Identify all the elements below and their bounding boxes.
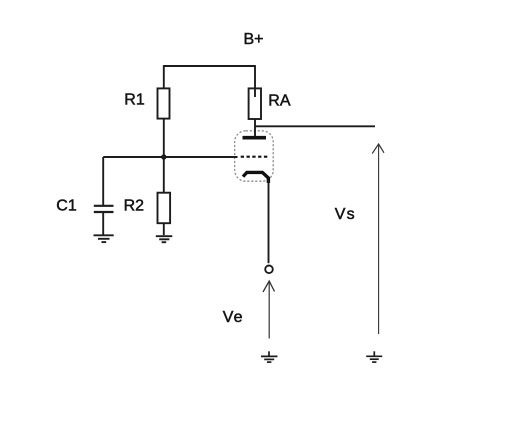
resistor R2 [158, 193, 171, 224]
svg-text:R2: R2 [124, 198, 145, 215]
resistor RA [249, 88, 261, 119]
wire: B+ top rail [164, 65, 255, 67]
svg-text:Ve: Ve [223, 309, 243, 326]
cathode of U1 [243, 172, 268, 183]
ground (below C1) [94, 235, 114, 242]
wire: C1 bottom lead [102, 213, 104, 235]
wire: RA top lead [254, 65, 256, 97]
wire: C1 top lead [102, 157, 104, 205]
ground (below R2) [156, 236, 173, 242]
svg-text:B+: B+ [244, 31, 264, 48]
node A (junction dot) [161, 154, 166, 159]
svg-text:Vs: Vs [335, 206, 355, 223]
tube envelope U1 [235, 131, 274, 181]
plate (anode) of U1 [243, 136, 267, 140]
svg-text:R1: R1 [124, 92, 145, 109]
arrow Ve (shaft) [268, 281, 270, 338]
wire: RA lead tick inside body [254, 89, 256, 97]
wire: R1 bottom lead to node [163, 119, 165, 157]
wire: R2 top lead [163, 157, 165, 194]
arrow Ve (head) [263, 281, 275, 292]
ground (below Ve arrow) [261, 351, 278, 362]
resistor R1 [158, 88, 170, 118]
ground (below Vs arrow) [366, 351, 382, 362]
svg-text:RA: RA [268, 93, 291, 110]
capacitor C1 [94, 206, 114, 212]
wire: grid line from node to tube [103, 156, 237, 158]
arrow Vs (shaft) [378, 144, 380, 334]
arrow Vs (head) [372, 144, 384, 154]
wire: R2 bottom lead [163, 223, 165, 235]
wire: cathode lead down [268, 181, 270, 263]
wire: RA bottom lead to plate [254, 119, 256, 137]
svg-text:C1: C1 [56, 198, 77, 215]
grid (dashed) of U1 [241, 156, 268, 158]
terminal (open circle) [265, 266, 273, 274]
wire: output line to Vs [255, 125, 375, 127]
wire: R1 top lead [163, 65, 165, 90]
